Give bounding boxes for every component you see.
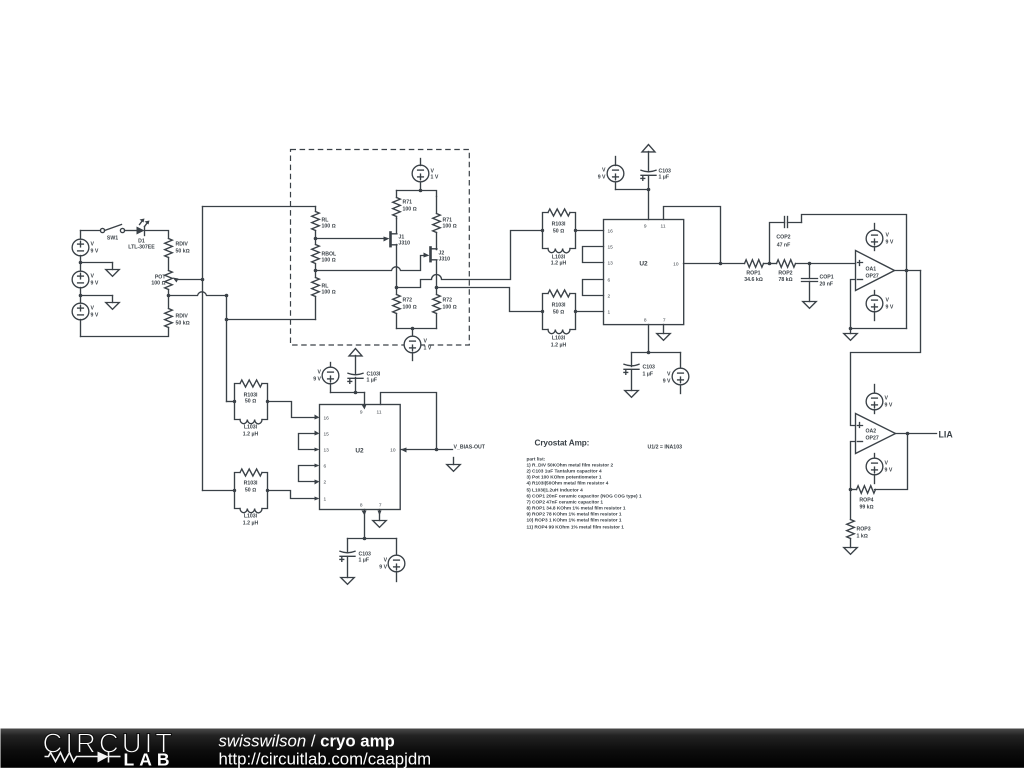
node RBOL/RL junction — [314, 269, 318, 273]
svg-text:100 Ω: 100 Ω — [403, 305, 417, 311]
pin 2 arrow — [315, 480, 320, 485]
svg-text:100 Ω: 100 Ω — [403, 207, 417, 213]
capacitor COP2 47nF — [770, 217, 802, 264]
wire pins 6-2 loop — [583, 280, 604, 296]
svg-text:V_BIAS-OUT: V_BIAS-OUT — [454, 445, 486, 451]
svg-text:1.2 µH: 1.2 µH — [551, 343, 567, 349]
svg-text:50 Ω: 50 Ω — [553, 310, 564, 316]
svg-text:100 Ω: 100 Ω — [151, 281, 165, 287]
svg-text:1 kΩ: 1 kΩ — [857, 534, 868, 540]
pin 13 arrow — [315, 448, 320, 452]
svg-text:Cryostat Amp:: Cryostat Amp: — [535, 439, 590, 448]
svg-text:OA1: OA1 — [866, 267, 877, 273]
transistor J1 J310 — [391, 233, 411, 247]
svg-text:J310: J310 — [439, 257, 451, 263]
ground pin 7 left U2 — [373, 521, 387, 528]
wire OA1 output — [895, 270, 921, 272]
wire pin 8 riser left U2 — [364, 510, 366, 539]
node 1V bottom junction — [411, 327, 415, 331]
svg-text:V: V — [91, 306, 95, 312]
wire RL return — [227, 319, 316, 321]
svg-text:2) C103 1uF Tantalum capacitor: 2) C103 1uF Tantalum capacitor 4 — [527, 469, 603, 475]
resistor RL 100 lower — [312, 271, 336, 320]
voltage source V 9V OA1 bottom — [866, 291, 894, 321]
svg-text:9 V: 9 V — [313, 377, 321, 383]
voltage source V 9V left bottom — [379, 539, 405, 582]
node RL/RBOL junction — [314, 237, 318, 241]
ground C103 bottom — [625, 391, 639, 398]
wire supply rail bottom left U2 — [348, 538, 397, 540]
svg-text:V: V — [886, 233, 890, 239]
wire OA2 output — [896, 433, 937, 435]
wire battery bottom — [81, 328, 169, 337]
wire COP2 feedback top — [802, 215, 907, 329]
svg-text:9) ROP2 78 KOhm 1% metal film: 9) ROP2 78 KOhm 1% metal film resistor 1 — [527, 512, 622, 518]
wire supply rail bottom — [632, 352, 681, 354]
wire upper tank to pin 16 — [268, 402, 315, 418]
wire pin 7 stub — [663, 325, 665, 334]
svg-text:1 µF: 1 µF — [359, 558, 369, 564]
svg-text:13: 13 — [608, 261, 614, 267]
svg-text:15: 15 — [324, 432, 330, 438]
wire LED to RDIV — [145, 231, 169, 239]
svg-text:4) R103I|50Ohm metal film resi: 4) R103I|50Ohm metal film resistor 4 — [527, 481, 609, 487]
wire bottom 1V rail — [397, 328, 437, 330]
voltage source V 9V OA2 bottom — [866, 454, 893, 484]
wire battery top — [81, 230, 101, 232]
svg-text:11) ROP4 99 KOhm 1% metal film: 11) ROP4 99 KOhm 1% metal film resistor … — [527, 525, 625, 531]
svg-text:1 V: 1 V — [431, 175, 439, 181]
svg-text:9 V: 9 V — [379, 565, 387, 571]
svg-text:1.2 µH: 1.2 µH — [243, 521, 259, 527]
R103I/L103I input tank upper (U2 left) — [233, 380, 269, 438]
svg-text:99 kΩ: 99 kΩ — [859, 505, 873, 511]
svg-text:6: 6 — [324, 464, 327, 470]
node J1 source junction — [395, 286, 399, 290]
svg-text:11: 11 — [377, 410, 382, 416]
resistor R72 right 100 — [433, 288, 457, 329]
R103I/L103I input tank upper (U2 right) — [541, 209, 577, 267]
node left feedback/output junction — [435, 448, 439, 452]
wire to upper tank — [227, 401, 235, 403]
svg-text:R72: R72 — [443, 298, 453, 304]
node RL-return tee — [225, 318, 229, 322]
R103I/L103I input tank lower (U2 right) — [541, 290, 577, 349]
svg-text:V: V — [602, 168, 606, 174]
svg-text:1.2 µH: 1.2 µH — [551, 261, 567, 267]
wire J1-source output with hop — [397, 231, 543, 288]
svg-text:part list:: part list: — [527, 457, 546, 463]
node OA1 output junction — [905, 269, 909, 273]
ground — [106, 263, 120, 277]
resistor ROP1 34.6k — [744, 260, 763, 283]
wire pins 15-13 loop left — [299, 434, 315, 450]
wire lower tank to pin 1 — [268, 491, 315, 499]
resistor RL 100 upper — [312, 207, 336, 239]
resistor R71 left 100 — [393, 191, 417, 219]
wire POT wiper — [178, 279, 203, 281]
wire J2 source — [436, 261, 438, 288]
svg-text:V: V — [886, 298, 890, 304]
svg-text:1 µF: 1 µF — [659, 175, 669, 181]
svg-text:L103I: L103I — [552, 336, 566, 342]
svg-text:9: 9 — [644, 224, 647, 230]
svg-text:9 V: 9 V — [91, 281, 99, 287]
pin 6 arrow — [315, 464, 320, 468]
op-amp OA2 OP27 — [856, 414, 896, 454]
voltage source V 1V bottom — [404, 329, 432, 361]
capacitor C103 bottom — [624, 353, 655, 391]
svg-text:9 V: 9 V — [91, 313, 99, 319]
svg-text:50 kΩ: 50 kΩ — [176, 249, 190, 255]
R103I/L103I input tank lower (U2 left) — [233, 469, 269, 527]
pin 16 arrow — [315, 415, 320, 420]
svg-text:9 V: 9 V — [886, 305, 894, 311]
pin 7 arrow — [378, 511, 382, 516]
resistor R72 left 100 — [393, 288, 417, 329]
svg-text:V: V — [318, 370, 322, 376]
node 1V top junction — [419, 189, 423, 193]
svg-text:2: 2 — [324, 480, 327, 486]
node battery junction 1 — [79, 261, 83, 265]
node POT bottom — [167, 294, 171, 298]
svg-text:R71: R71 — [403, 200, 413, 206]
voltage source V2 9V — [72, 263, 99, 296]
dashed boundary box — [291, 150, 470, 346]
svg-text:34.6 kΩ: 34.6 kΩ — [744, 277, 762, 283]
svg-text:J310: J310 — [399, 241, 411, 247]
svg-text:1: 1 — [324, 497, 327, 503]
svg-text:swisswilson / cryo amp: swisswilson / cryo amp — [219, 732, 395, 751]
node OA2 output junction — [906, 432, 910, 436]
wire supply rail top left U2 — [331, 392, 365, 394]
potentiometer POT 100 — [151, 271, 172, 309]
wire OA2 -input — [851, 442, 856, 490]
svg-text:50 Ω: 50 Ω — [553, 229, 564, 235]
svg-text:3) Pot 100 KOhm potentiometer: 3) Pot 100 KOhm potentiometer 1 — [527, 475, 602, 481]
svg-text:100 Ω: 100 Ω — [443, 224, 457, 230]
wire J2-source output — [437, 288, 543, 312]
svg-text:U2: U2 — [355, 448, 364, 455]
svg-text:L103I: L103I — [244, 425, 258, 431]
svg-text:9 V: 9 V — [886, 240, 894, 246]
svg-text:ROP2: ROP2 — [778, 271, 792, 277]
capacitor COP1 20nF — [802, 264, 834, 302]
svg-text:9 V: 9 V — [885, 468, 893, 474]
svg-text:ROP1: ROP1 — [746, 271, 760, 277]
J2 gate arrow — [424, 253, 430, 258]
resistor RDIV 50k bottom — [165, 309, 190, 328]
svg-text:OP27: OP27 — [866, 436, 879, 442]
node left bottom supply junction — [363, 537, 367, 541]
wire pin 10 V_BIAS-OUT — [401, 449, 453, 451]
wire switch to LED — [125, 230, 137, 232]
resistor RDIV 50k top — [165, 239, 190, 271]
voltage source V3 9V — [72, 296, 99, 337]
pin 10 arrow — [401, 448, 407, 453]
wire J1 drain — [396, 219, 398, 234]
ground — [106, 296, 120, 310]
wire ROP4 to -input — [851, 489, 857, 491]
wire OA1 to OA2 — [851, 271, 921, 426]
svg-text:50 Ω: 50 Ω — [245, 488, 256, 494]
svg-text:1 V: 1 V — [424, 346, 432, 352]
svg-text:V: V — [91, 242, 95, 248]
svg-text:6) COP1 20nF ceramic capacitor: 6) COP1 20nF ceramic capacitor (NOG COG … — [527, 494, 642, 500]
svg-text:100 Ω: 100 Ω — [322, 224, 336, 230]
resistor ROP3 1k — [847, 490, 871, 548]
ground pin 7 — [657, 334, 671, 341]
wire pin 11 feedback left U2 — [381, 393, 437, 450]
pin 9 arrow — [362, 405, 367, 410]
svg-text:8) ROP1 34.8 KOhm 1% metal fil: 8) ROP1 34.8 KOhm 1% metal film resistor… — [527, 506, 626, 512]
svg-text:10: 10 — [390, 448, 396, 454]
svg-text:R103I: R103I — [552, 303, 566, 309]
footer bar — [1, 729, 1024, 768]
svg-text:100 Ω: 100 Ω — [322, 258, 336, 264]
voltage source V 9V OA2 top — [866, 385, 893, 414]
ground C103 bottom left — [341, 578, 355, 585]
wire pins 15-13 loop — [583, 247, 604, 263]
svg-text:9 V: 9 V — [663, 379, 671, 385]
svg-text:RDIV: RDIV — [176, 314, 189, 320]
svg-text:9 V: 9 V — [598, 175, 606, 181]
wire ROP2 to op-amp — [796, 263, 856, 265]
wire top rail to RL chain — [203, 206, 316, 208]
svg-text:16: 16 — [324, 416, 330, 422]
wire J2 gate with hop — [316, 256, 424, 271]
wire pin 11 feedback — [664, 207, 721, 264]
wire tank to pin 1 — [576, 311, 604, 313]
svg-text:V: V — [424, 339, 428, 345]
wire POT bottom with hop — [169, 292, 227, 296]
wire wiper vertical bus — [202, 207, 204, 491]
svg-text:13: 13 — [324, 448, 330, 454]
svg-text:8: 8 — [644, 318, 647, 324]
transistor J2 J310 — [431, 248, 451, 263]
svg-text:9: 9 — [360, 410, 363, 416]
wire pins 6-2 loop left — [299, 466, 315, 482]
J1 gate arrow — [384, 237, 390, 242]
op-amp U2 left INA103 box — [320, 405, 401, 510]
pin 8 arrow — [362, 511, 367, 516]
node wiper tee — [201, 278, 205, 282]
svg-text:SW1: SW1 — [107, 236, 118, 242]
node top supply junction — [647, 188, 651, 192]
svg-text:2: 2 — [608, 294, 611, 300]
svg-text:U2: U2 — [639, 261, 648, 268]
svg-text:LTL-307EE: LTL-307EE — [128, 245, 155, 251]
capacitor C103 bottom left — [340, 539, 371, 578]
svg-text:1) R_DIV 50KOhm metal film res: 1) R_DIV 50KOhm metal film resistor 2 — [527, 463, 614, 469]
resistor ROP2 78k — [777, 260, 796, 283]
node bottom supply junction — [647, 351, 651, 355]
svg-text:78 kΩ: 78 kΩ — [778, 277, 792, 283]
part list text — [527, 457, 642, 531]
voltage source V1 9V — [72, 231, 99, 263]
power flag left — [349, 349, 362, 356]
svg-text:16: 16 — [608, 229, 614, 235]
wire OA1 -input to bottom rail — [851, 280, 856, 329]
svg-text:15: 15 — [608, 245, 614, 251]
svg-text:5) L103I|1.2uH inductor 4: 5) L103I|1.2uH inductor 4 — [527, 488, 584, 494]
svg-text:11: 11 — [661, 224, 666, 230]
svg-text:OA2: OA2 — [866, 429, 877, 435]
svg-text:RDIV: RDIV — [176, 242, 189, 248]
POT wiper arrow — [173, 278, 179, 283]
wire OA1 bottom rail — [851, 328, 907, 330]
svg-text:http://circuitlab.com/caapjdm: http://circuitlab.com/caapjdm — [219, 750, 432, 768]
svg-text:7: 7 — [663, 318, 666, 324]
ground OA1 — [844, 329, 858, 341]
svg-text:LIA: LIA — [939, 430, 954, 440]
svg-text:ROP3: ROP3 — [857, 527, 871, 533]
pin 1 arrow — [315, 497, 320, 501]
svg-text:V: V — [885, 396, 889, 402]
node OA1 ground junction — [849, 327, 853, 331]
svg-text:1 µF: 1 µF — [643, 372, 653, 378]
node battery junction 2 — [79, 294, 83, 298]
svg-text:47 nF: 47 nF — [777, 243, 791, 249]
ground V_BIAS-OUT — [447, 458, 461, 472]
svg-text:9 V: 9 V — [91, 249, 99, 255]
wire pin 7 stub left U2 — [379, 510, 381, 521]
svg-text:V: V — [667, 372, 671, 378]
svg-text:V: V — [885, 461, 889, 467]
svg-text:100 Ω: 100 Ω — [322, 290, 336, 296]
voltage source V 9V left top — [313, 363, 339, 393]
svg-text:9 V: 9 V — [885, 403, 893, 409]
svg-text:V: V — [384, 558, 388, 564]
op-amp U2 right INA103 box — [604, 220, 684, 325]
svg-text:L103I: L103I — [244, 514, 258, 520]
node feedback/output junction — [719, 262, 723, 266]
ground COP1 — [803, 302, 817, 309]
wire pin 10 output — [684, 263, 745, 265]
svg-text:1: 1 — [608, 310, 611, 316]
voltage source V 9V bottom right — [663, 353, 689, 394]
svg-text:U1/2 = INA103: U1/2 = INA103 — [648, 445, 683, 451]
logo resistor-diode squiggle — [45, 752, 121, 763]
ground ROP3 — [844, 548, 858, 555]
svg-text:10) ROP3 1 KOhm 1% metal film: 10) ROP3 1 KOhm 1% metal film resistor 1 — [527, 518, 622, 524]
LED D1 LTL-307EE — [128, 219, 155, 251]
svg-text:6: 6 — [608, 278, 611, 284]
op-amp OA1 OP27 — [856, 251, 895, 291]
svg-text:8: 8 — [360, 503, 363, 509]
resistor R71 right 100 — [433, 197, 457, 250]
wire pin 8 riser — [648, 325, 650, 353]
wire second vertical bus — [226, 296, 228, 402]
svg-text:COP1: COP1 — [820, 275, 834, 281]
wire supply rail top — [616, 189, 649, 191]
svg-text:R72: R72 — [403, 298, 413, 304]
node pot-bottom tee — [225, 294, 229, 298]
svg-text:50 kΩ: 50 kΩ — [176, 321, 190, 327]
svg-text:COP2: COP2 — [776, 235, 790, 241]
svg-text:LAB: LAB — [124, 750, 175, 768]
svg-text:OP27: OP27 — [866, 274, 879, 280]
svg-text:1 µF: 1 µF — [367, 378, 377, 384]
pin 15 arrow — [315, 431, 320, 436]
node +input/COP1 junction — [808, 262, 812, 266]
power flag top — [642, 145, 655, 152]
node ROP3/ROP4 junction — [849, 488, 853, 492]
wire to lower tank — [203, 490, 235, 492]
svg-text:7: 7 — [379, 503, 382, 509]
wire tank to pin 16 — [576, 230, 604, 232]
voltage source V 9V top right — [598, 157, 624, 190]
svg-text:10: 10 — [673, 262, 679, 268]
wire to ground 1 — [81, 262, 113, 264]
svg-text:7) COP2 47nF ceramic capacitor: 7) COP2 47nF ceramic capacitor 1 — [527, 500, 604, 506]
svg-text:100 Ω: 100 Ω — [443, 305, 457, 311]
voltage source V 1V top — [412, 159, 439, 191]
svg-text:V: V — [91, 274, 95, 280]
svg-text:50 Ω: 50 Ω — [245, 399, 256, 405]
node J2 source junction — [435, 286, 439, 290]
switch SW1 — [100, 225, 124, 242]
capacitor C103 top — [641, 152, 671, 190]
wire ROP1 to ROP2 — [764, 263, 777, 265]
wire J1 source — [396, 245, 398, 288]
node ROP1/ROP2/COP2 junction — [768, 262, 772, 266]
svg-text:ROP4: ROP4 — [859, 498, 873, 504]
capacitor C103I top left — [348, 356, 381, 393]
resistor RBOL 100 — [312, 239, 337, 271]
wire J2 drain — [436, 249, 438, 251]
wire to ground 2 — [81, 295, 113, 297]
wire OA2 feedback — [875, 434, 908, 490]
svg-text:R103I: R103I — [244, 481, 258, 487]
wire pin 9 riser — [648, 190, 650, 220]
wire top 1V rail — [397, 191, 437, 197]
voltage source V 9V OA1 top — [866, 224, 894, 251]
svg-text:C103: C103 — [643, 365, 656, 371]
wire J1 gate — [316, 238, 385, 240]
resistor ROP4 99k — [857, 486, 876, 511]
svg-text:1.2 µH: 1.2 µH — [243, 432, 259, 438]
svg-text:20 nF: 20 nF — [820, 282, 834, 288]
wire pin 9 riser left U2 — [364, 393, 366, 405]
node left top supply junction — [354, 391, 358, 395]
svg-text:R103I: R103I — [552, 222, 566, 228]
